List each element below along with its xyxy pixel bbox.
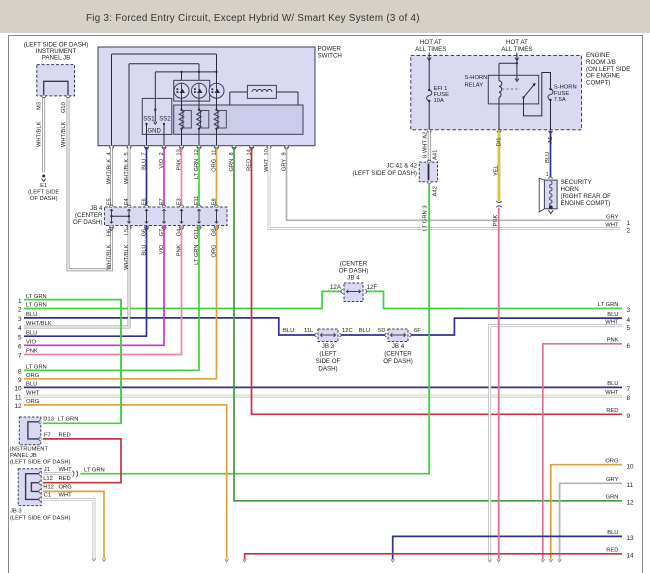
pin G11	[194, 226, 202, 240]
svg-text:BLU: BLU	[141, 245, 147, 256]
svg-text:YEL: YEL	[493, 164, 499, 176]
svg-text:E7: E7	[159, 198, 165, 205]
svg-text:JB 3: JB 3	[10, 509, 22, 515]
svg-text:11L: 11L	[304, 328, 314, 334]
pin G4	[176, 226, 184, 237]
svg-text:12C: 12C	[342, 328, 353, 334]
wire WHT from C1 to bottom arrow	[43, 499, 96, 561]
svg-text:PNK: PNK	[607, 338, 619, 344]
power switch pin 2 (VIO)	[159, 146, 167, 169]
svg-text:GRY: GRY	[606, 214, 619, 220]
wire 8 WHT A2 from EFI 1 fuse to JC41	[423, 131, 439, 162]
svg-text:BLU: BLU	[283, 328, 294, 334]
svg-text:(LEFT SIDE OF DASH): (LEFT SIDE OF DASH)	[10, 516, 71, 522]
svg-text:WHT/BLK: WHT/BLK	[37, 122, 43, 147]
connector 5D-6F JB 4 (center of dash)	[383, 329, 413, 365]
pin E4	[124, 198, 131, 207]
pin E11	[194, 196, 201, 207]
pin L5	[124, 226, 132, 236]
svg-text:HOT AT: HOT AT	[506, 39, 528, 46]
svg-text:OF DASH): OF DASH)	[383, 358, 413, 365]
JB4 pass-through E11-G11	[197, 209, 200, 223]
left edge label 7 PNK	[18, 349, 38, 360]
switch block SS1 SS2	[142, 72, 172, 134]
svg-text:BLU: BLU	[607, 381, 618, 387]
JB4 internal bus H6-L5	[110, 209, 131, 223]
svg-text:LT GRN: LT GRN	[194, 245, 200, 265]
power feed HOT AT ALL TIMES (EFI 1)	[415, 39, 446, 90]
left edge label 2 LT GRN	[18, 303, 47, 314]
svg-text:RED: RED	[606, 548, 618, 554]
svg-text:JB 4: JB 4	[90, 205, 103, 212]
svg-text:G10: G10	[61, 102, 67, 113]
slider resistor box	[174, 105, 303, 134]
wire WHT from J1 to inline connector	[43, 472, 72, 475]
svg-text:GRN: GRN	[606, 495, 619, 501]
wire BLU pin 7 to JB4 E6	[146, 147, 148, 207]
svg-text:14: 14	[627, 553, 635, 560]
fuse S-HORN 7.5A	[548, 85, 577, 130]
wire ORG pin 11 to JB4 E8	[216, 147, 218, 207]
svg-text:ALL TIMES: ALL TIMES	[501, 46, 532, 53]
wire 5 WHT from bottom to edge 5	[488, 320, 631, 563]
svg-text:6: 6	[18, 344, 22, 351]
power feed HOT AT ALL TIMES (relay)	[501, 39, 532, 82]
svg-text:HOT AT: HOT AT	[420, 39, 442, 46]
svg-text:C1: C1	[44, 493, 51, 499]
svg-text:WHT/BLK: WHT/BLK	[61, 122, 67, 147]
svg-text:RED: RED	[606, 408, 618, 414]
wire RED from F7 to L12	[43, 439, 121, 483]
wire GRY power switch pin 9 to edge 1	[287, 147, 631, 227]
wire 10 ORG from bottom to edge 10	[549, 459, 634, 563]
junction block JB 3 (left side of dash)	[10, 469, 71, 522]
power switch pin 12 (LT GRN)	[194, 146, 202, 179]
wire WHT/BLK pin 4 to JB4 E5	[110, 147, 113, 207]
JB4 pass-through E3-G4	[180, 209, 183, 223]
svg-text:LT GRN: LT GRN	[84, 468, 105, 474]
wire YEL relay coil D/1	[493, 131, 502, 201]
pin E5	[106, 198, 113, 207]
inline connector on J1 wire	[73, 468, 105, 477]
svg-text:M3: M3	[37, 102, 43, 110]
wire LT GRN 3 from JC41 A42 to JB3 pin J1	[80, 183, 438, 474]
svg-text:RED: RED	[59, 433, 71, 439]
svg-text:E11: E11	[194, 196, 200, 206]
svg-text:(CENTER: (CENTER	[75, 212, 103, 219]
svg-text:JB 4: JB 4	[347, 275, 360, 282]
svg-text:S-HORN: S-HORN	[554, 85, 577, 91]
svg-text:A41: A41	[432, 150, 438, 160]
svg-text:(CENTER: (CENTER	[384, 351, 412, 358]
pin E6	[141, 198, 148, 207]
power switch pin 4 (WHT/BLK)	[106, 146, 114, 184]
svg-text:PANEL JB: PANEL JB	[10, 453, 37, 459]
engine room J/B (on left side of engine compt)	[411, 52, 630, 130]
wire WHT/BLK from G10 to JB4 pin H6	[61, 99, 113, 270]
wire 6 PNK from bottom to edge 6	[541, 338, 631, 562]
svg-text:ALL TIMES: ALL TIMES	[415, 46, 446, 53]
svg-text:GRY: GRY	[606, 477, 619, 483]
J/B exit arrows	[427, 131, 552, 134]
wire 7 PNK edge to JB4 G4	[24, 226, 182, 355]
security horn (right rear of engine compt)	[539, 172, 611, 214]
wire ORG from H12 to bottom arrow	[43, 491, 106, 561]
svg-text:F7: F7	[44, 433, 51, 439]
connector 12A-12F JB 4 (center of dash)	[330, 261, 377, 302]
junction block: instrument panel JB (left side of dash, top)	[24, 42, 89, 96]
pin G6	[141, 226, 149, 237]
svg-text:BLU: BLU	[545, 152, 551, 163]
svg-text:BLU: BLU	[607, 530, 618, 536]
svg-text:POWER: POWER	[318, 46, 342, 53]
wire crossing overlay LT GRN (wire 1 riser)	[120, 300, 122, 424]
indicator LED D2	[192, 83, 207, 98]
power switch internal wiring	[112, 54, 218, 146]
svg-text:12: 12	[627, 500, 635, 507]
left edge label 12 ORG	[14, 399, 39, 410]
svg-text:WHT: WHT	[605, 320, 619, 326]
svg-text:ENGINE COMPT): ENGINE COMPT)	[561, 200, 611, 207]
pin M3	[37, 96, 46, 110]
svg-text:5D: 5D	[378, 328, 385, 334]
svg-text:10A: 10A	[434, 98, 444, 104]
pin D13	[39, 417, 79, 424]
pin H12	[39, 485, 72, 494]
pin J1	[39, 467, 72, 475]
power switch pin 11 (ORG)	[211, 146, 219, 172]
svg-text:OF DASH): OF DASH)	[339, 268, 369, 275]
svg-text:10: 10	[14, 386, 22, 393]
indicator LED D3	[209, 83, 224, 98]
svg-text:SWITCH: SWITCH	[318, 53, 342, 60]
pin E7	[159, 198, 166, 207]
svg-text:H12: H12	[43, 485, 54, 491]
wire LT GRN pin 12 to JB4 E11	[198, 147, 200, 207]
svg-text:ORG: ORG	[211, 245, 217, 258]
indicator LED D1	[174, 83, 189, 98]
svg-text:11: 11	[15, 394, 22, 401]
svg-text:4: 4	[627, 317, 631, 324]
svg-text:SECURITY: SECURITY	[561, 179, 592, 186]
pin H6	[106, 226, 114, 237]
wire 13 BLU from bottom to edge 13	[391, 530, 634, 562]
svg-text:(LEFT SIDE OF DASH): (LEFT SIDE OF DASH)	[10, 459, 71, 465]
svg-text:7: 7	[18, 353, 22, 360]
svg-text:JB 3: JB 3	[322, 343, 335, 350]
left edge label 6 VIO	[18, 340, 37, 351]
power switch pin 13 (PNK)	[176, 146, 184, 171]
ground E1 (left side of dash)	[28, 175, 59, 203]
svg-text:7.5A: 7.5A	[554, 97, 566, 103]
power switch pin 10 (WHT)	[264, 146, 272, 172]
svg-text:D/1: D/1	[497, 137, 503, 146]
svg-text:WHT: WHT	[605, 222, 619, 228]
svg-text:12F: 12F	[367, 284, 378, 291]
svg-text:ORG: ORG	[605, 459, 619, 465]
wire 10 BLU edge to edge 7	[24, 381, 631, 393]
connector 11L-12C JB 3 (left side of dash)	[315, 329, 341, 373]
wire 1 LT GRN edge to D13	[24, 300, 121, 424]
svg-text:LT GRN: LT GRN	[58, 417, 79, 423]
svg-text:E5: E5	[106, 198, 112, 205]
left edge label 11 WHT	[15, 390, 40, 401]
svg-text:(CENTER: (CENTER	[340, 261, 368, 268]
power switch	[98, 46, 342, 146]
svg-text:A42: A42	[432, 186, 438, 196]
svg-text:1: 1	[18, 298, 22, 305]
resistor R1	[179, 98, 191, 146]
svg-text:E1: E1	[40, 183, 47, 189]
svg-text:JC 41 & 42: JC 41 & 42	[386, 163, 417, 170]
power switch pin 9 (GRY)	[281, 146, 289, 171]
svg-text:3: 3	[627, 307, 631, 314]
ground GND arrow	[148, 110, 162, 135]
svg-text:12: 12	[14, 403, 22, 410]
svg-text:7: 7	[627, 386, 631, 393]
JB4 pass-through E8-G8	[215, 209, 218, 223]
svg-text:BLU: BLU	[607, 312, 618, 318]
svg-text:WHT: WHT	[59, 493, 73, 499]
svg-text:1: 1	[627, 220, 631, 227]
title bar	[0, 0, 650, 33]
svg-text:WHT: WHT	[605, 390, 619, 396]
wire WHT/BLK pin 5 to JB4 E4	[128, 147, 131, 207]
wire 6 VIO edge to JB4 G7	[24, 226, 165, 346]
left edge label 5 BLU	[18, 330, 37, 341]
svg-text:FUSE: FUSE	[554, 91, 570, 97]
left edge label 9 ORG	[18, 373, 40, 384]
svg-text:INSTRUMENT: INSTRUMENT	[10, 447, 48, 453]
resistor R2	[197, 98, 209, 146]
svg-text:A5: A5	[548, 136, 554, 143]
svg-text:3: 3	[18, 316, 22, 323]
svg-text:PNK: PNK	[176, 244, 182, 256]
svg-text:SS1: SS1	[143, 116, 155, 122]
svg-text:(LEFT SIDE: (LEFT SIDE	[28, 190, 59, 196]
svg-text:(RIGHT REAR OF: (RIGHT REAR OF	[561, 193, 612, 200]
junction block JB 4 (center of dash)	[73, 205, 227, 226]
pin F7	[39, 433, 71, 441]
svg-text:10: 10	[627, 464, 635, 471]
svg-text:8 WHT A2: 8 WHT A2	[423, 132, 429, 158]
svg-text:S-HORN: S-HORN	[465, 75, 488, 81]
svg-text:8: 8	[627, 395, 631, 402]
wire BLU A5 from S-HORN fuse to security horn	[545, 131, 554, 179]
wire WHT/BLK from M3 to ground E1	[37, 99, 44, 173]
svg-text:COMPT): COMPT)	[586, 80, 610, 87]
fuse EFI 1 10A	[427, 86, 449, 130]
left edge label 3 BLU	[18, 312, 37, 323]
svg-text:1: 1	[546, 172, 549, 178]
svg-text:5: 5	[627, 325, 631, 332]
svg-text:12A: 12A	[330, 284, 342, 291]
svg-text:VIO: VIO	[159, 244, 165, 254]
svg-text:GND: GND	[148, 129, 162, 135]
left edge label 1 LT GRN	[18, 294, 47, 305]
wire RED power switch pin 14 to edge 9	[252, 147, 631, 420]
wire VIO pin 2 to JB4 E7	[163, 147, 165, 207]
svg-text:L12: L12	[43, 476, 53, 482]
inductor L1 (buzzer coil)	[230, 85, 298, 105]
svg-text:SS2: SS2	[159, 116, 171, 122]
connector JC 41 and 42 (left side of dash)	[352, 160, 437, 183]
svg-text:D13: D13	[43, 417, 54, 423]
pin G7	[159, 226, 167, 237]
svg-text:HORN: HORN	[561, 186, 579, 193]
svg-text:E4: E4	[124, 198, 130, 205]
svg-text:RELAY: RELAY	[465, 83, 484, 89]
wire 2 LT GRN edge through JB4 12A-12F to edge 3	[24, 291, 631, 314]
svg-text:JB 4: JB 4	[392, 343, 405, 350]
svg-text:13: 13	[627, 535, 635, 542]
resistor R3	[214, 98, 226, 146]
left edge label 10 BLU	[14, 382, 37, 393]
wire 14 RED from bottom to edge 14	[243, 548, 634, 562]
LED enclosure box	[174, 80, 210, 101]
svg-text:6F: 6F	[414, 328, 421, 334]
pin G10	[61, 96, 70, 113]
svg-text:E6: E6	[141, 198, 147, 205]
left edge label 8 LT GRN	[18, 365, 47, 376]
svg-text:Fig 3: Forced Entry Circuit, E: Fig 3: Forced Entry Circuit, Except Hybr…	[86, 13, 420, 24]
svg-text:(LEFT: (LEFT	[319, 351, 336, 358]
wire relay contact to S-HORN fuse	[524, 73, 551, 116]
svg-text:2: 2	[627, 228, 631, 235]
power switch pin 8 (GRN)	[229, 146, 237, 172]
wire GRN power switch pin 8 to edge 12	[234, 147, 634, 507]
svg-text:9: 9	[18, 377, 22, 384]
wire 12 ORG edge to bottom arrow	[24, 405, 229, 562]
svg-text:BLU: BLU	[359, 328, 370, 334]
wire 3 BLU edge through JB3 and JB4 to edge 4	[24, 312, 631, 335]
wire 11 GRY from bottom to edge 11	[558, 477, 634, 562]
pin G8	[211, 226, 219, 237]
wire 8 LT GRN edge to JB4 G11	[24, 226, 200, 371]
svg-text:11: 11	[627, 482, 634, 489]
power switch pin 5 (WHT/BLK)	[124, 146, 132, 184]
svg-text:8: 8	[18, 369, 22, 376]
wire PNK pin 13 to JB4 E3	[181, 147, 183, 207]
wire 5 BLU edge to JB4 G6	[24, 226, 147, 337]
svg-text:DASH): DASH)	[318, 366, 337, 373]
JB4 pass-through E6-G6	[145, 209, 148, 223]
left edge label 4 WHT/BLK	[18, 321, 52, 332]
splice YEL to PNK	[496, 201, 501, 207]
svg-text:5: 5	[18, 334, 22, 341]
wire 9 ORG edge to JB4 G8	[24, 226, 217, 379]
pin C1	[39, 493, 72, 502]
relay S-HORN RELAY	[465, 62, 539, 130]
power switch pin 14 (RED)	[246, 146, 254, 171]
wire crossing overlay PNK (splice to bottom)	[498, 208, 500, 560]
wire PNK from splice to bottom	[493, 208, 500, 563]
wire WHT power switch pin 10 to edge 2	[269, 147, 631, 235]
svg-text:WHT/BLK: WHT/BLK	[124, 244, 130, 269]
junction block: instrument panel JB (left side of dash, lower)	[10, 417, 71, 465]
wire 4 WHT/BLK edge to JB4 L5	[24, 226, 130, 328]
svg-text:SIDE OF: SIDE OF	[316, 358, 341, 365]
svg-text:ORG: ORG	[59, 485, 73, 491]
pin E3	[176, 198, 183, 207]
svg-text:LT GRN: LT GRN	[598, 302, 619, 308]
wire crossing overlay LT GRN (JC41 to J1)	[428, 183, 430, 474]
svg-text:OF DASH): OF DASH)	[73, 219, 103, 226]
pin E8	[211, 198, 218, 207]
svg-text:PANEL JB: PANEL JB	[42, 55, 71, 62]
svg-text:RED: RED	[59, 476, 71, 482]
svg-text:OF DASH): OF DASH)	[30, 196, 58, 202]
JB4 pass-through E7-G7	[162, 209, 165, 223]
svg-text:4: 4	[18, 325, 22, 332]
svg-text:E8: E8	[211, 198, 217, 205]
svg-text:9: 9	[627, 413, 631, 420]
pin L12	[39, 476, 71, 485]
svg-text:2: 2	[18, 307, 22, 314]
svg-text:(LEFT SIDE OF DASH): (LEFT SIDE OF DASH)	[352, 170, 417, 177]
wire 11 WHT edge to edge 8	[24, 390, 631, 402]
power switch pin 7 (BLU)	[141, 146, 149, 170]
svg-text:6: 6	[627, 343, 631, 350]
svg-text:E3: E3	[176, 198, 182, 205]
svg-text:WHT/BLK: WHT/BLK	[106, 244, 112, 269]
